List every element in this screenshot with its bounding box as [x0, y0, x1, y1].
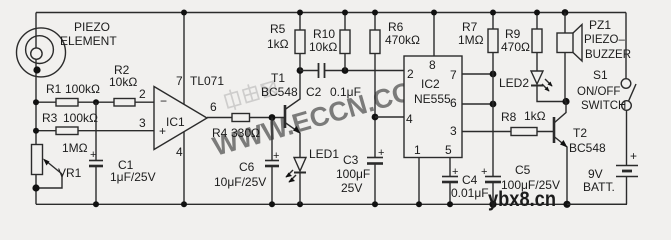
- transistor Q1 T1 BC548: [284, 105, 287, 128]
- svg-text:1kΩ: 1kΩ: [524, 109, 546, 123]
- svg-text:R8: R8: [501, 110, 517, 124]
- svg-text:R6: R6: [388, 20, 404, 34]
- svg-text:BUZZER: BUZZER: [585, 49, 631, 61]
- svg-text:+: +: [378, 147, 384, 159]
- potentiometer VR1: [32, 145, 43, 175]
- svg-text:R10: R10: [313, 27, 335, 41]
- svg-text:PZ1: PZ1: [589, 18, 611, 32]
- resistor R8: [511, 128, 537, 136]
- svg-text:0.01μF: 0.01μF: [451, 186, 489, 200]
- wire R2 to pin2: [135, 101, 154, 103]
- node T2 collector: [562, 98, 569, 105]
- LED2: [531, 71, 543, 84]
- svg-text:BC548: BC548: [261, 85, 298, 99]
- wire pin5 to C4: [449, 158, 451, 177]
- wire switch to battery: [626, 110, 628, 165]
- svg-text:5: 5: [445, 143, 452, 157]
- node pin7/R7: [490, 71, 497, 78]
- node LED1 ground: [297, 201, 303, 207]
- node VR1 return: [32, 184, 39, 191]
- svg-text:PIEZO‒: PIEZO‒: [584, 34, 626, 46]
- svg-text:6: 6: [450, 96, 457, 110]
- svg-text:BATT.: BATT.: [583, 180, 615, 194]
- svg-text:6: 6: [210, 100, 217, 114]
- node R6/pin4: [372, 114, 379, 121]
- svg-text:C3: C3: [343, 153, 359, 167]
- svg-text:LED2: LED2: [499, 76, 529, 90]
- svg-text:1MΩ: 1MΩ: [62, 141, 88, 155]
- svg-text:PIEZO: PIEZO: [74, 20, 110, 34]
- node T2 emitter ground: [563, 201, 570, 208]
- resistor R5: [295, 30, 305, 54]
- node R3 left: [33, 128, 39, 134]
- resistor R7: [488, 29, 498, 53]
- transistor Q2 T2 BC548: [553, 117, 556, 143]
- svg-text:10kΩ: 10kΩ: [309, 40, 337, 54]
- wire R4 to T1 base: [250, 117, 286, 119]
- node piezo bottom: [33, 66, 40, 73]
- svg-text:C5: C5: [515, 163, 531, 177]
- wire pin7: [462, 73, 493, 75]
- svg-text:1μF/25V: 1μF/25V: [110, 170, 156, 184]
- wire C2 to pin2: [325, 70, 405, 72]
- capacitor C1: [95, 102, 97, 160]
- capacitor C5: [485, 176, 501, 178]
- wire pin1 to ground: [418, 158, 420, 205]
- node R4/C6: [269, 114, 276, 121]
- capacitor C3: [367, 157, 383, 159]
- svg-text:1: 1: [414, 143, 421, 157]
- node pin6: [490, 101, 497, 108]
- resistor R1: [56, 99, 78, 107]
- wire R3 to pin3: [36, 130, 56, 132]
- svg-text:BC548: BC548: [569, 141, 606, 155]
- left rail wire: [35, 13, 37, 49]
- svg-text:ON/OFF: ON/OFF: [577, 86, 620, 98]
- svg-text:R5: R5: [270, 22, 286, 36]
- svg-text:T2: T2: [573, 126, 587, 140]
- resistor R6: [370, 30, 380, 54]
- piezo element PZ: [17, 28, 66, 77]
- wire R1: [36, 101, 56, 103]
- wiper arrow VR1: [46, 161, 63, 175]
- capacitor C6: [271, 118, 273, 161]
- node R1 left: [33, 99, 39, 105]
- svg-text:+: +: [452, 166, 458, 178]
- svg-text:2: 2: [407, 67, 414, 81]
- svg-text:470Ω: 470Ω: [501, 40, 530, 54]
- svg-text:R7: R7: [462, 20, 478, 34]
- resistor R3: [56, 127, 78, 135]
- buzzer PZ1: [562, 9, 569, 16]
- capacitor C2: [318, 63, 320, 78]
- op-amp U1 TL071: [154, 87, 207, 150]
- node C1 ground: [93, 201, 99, 207]
- svg-text:LED1: LED1: [309, 147, 339, 161]
- node C3 ground: [372, 201, 378, 207]
- wire pin8 to rail: [433, 13, 435, 57]
- svg-text:C2: C2: [306, 85, 322, 99]
- svg-text:R3: R3: [42, 111, 58, 125]
- resistor R2: [114, 99, 135, 107]
- svg-text:NE555: NE555: [414, 92, 451, 106]
- wire pin4: [375, 116, 404, 118]
- wire collector node to C2: [300, 70, 318, 72]
- battery 9V: [616, 165, 638, 167]
- bottom rail wire: [36, 203, 627, 205]
- node R10 bottom: [342, 67, 349, 74]
- svg-text:100μF: 100μF: [336, 167, 370, 181]
- svg-text:4: 4: [406, 112, 413, 126]
- svg-text:10kΩ: 10kΩ: [109, 75, 137, 89]
- resistor R4: [232, 114, 250, 122]
- svg-text:S1: S1: [593, 68, 608, 82]
- wire opamp output: [207, 117, 232, 119]
- svg-text:R4: R4: [212, 126, 228, 140]
- resistor R9: [532, 29, 542, 53]
- wire R8 to T2 base: [537, 131, 554, 133]
- node R1/R2/C1: [93, 99, 99, 105]
- node T1 collector / R5: [297, 67, 304, 74]
- switch S1: [621, 79, 631, 89]
- watermark ECCN: [199, 35, 438, 162]
- svg-text:25V: 25V: [341, 181, 362, 195]
- svg-text:C6: C6: [239, 160, 255, 174]
- svg-text:IC2: IC2: [421, 77, 440, 91]
- svg-text:4: 4: [176, 145, 183, 159]
- svg-text:0.1μF: 0.1μF: [330, 85, 361, 99]
- wire VR1 wiper return: [36, 174, 62, 188]
- svg-text:R9: R9: [505, 27, 521, 41]
- svg-text:R1: R1: [46, 82, 62, 96]
- svg-text:ybx8.cn: ybx8.cn: [488, 188, 556, 211]
- svg-text:+: +: [630, 149, 637, 163]
- wire pin6: [462, 103, 493, 105]
- svg-text:T1: T1: [271, 71, 285, 85]
- LED1: [294, 158, 306, 172]
- svg-text:+: +: [273, 150, 279, 162]
- node C6 ground: [269, 201, 275, 207]
- svg-text:1kΩ: 1kΩ: [267, 37, 289, 51]
- svg-text:2: 2: [139, 87, 146, 101]
- wire pin4 to ground: [183, 132, 185, 205]
- svg-text:C4: C4: [462, 173, 478, 187]
- LED1 arrows: [286, 170, 293, 177]
- wire pin3 to R8: [462, 131, 511, 133]
- svg-text:7: 7: [450, 68, 457, 82]
- right rail wire (to switch): [625, 13, 627, 79]
- svg-text:100kΩ: 100kΩ: [63, 111, 98, 125]
- wire pin7 to rail: [183, 13, 185, 105]
- svg-text:+: +: [90, 149, 96, 161]
- svg-text:10μF/25V: 10μF/25V: [214, 175, 266, 189]
- svg-text:3: 3: [450, 124, 457, 138]
- svg-text:100kΩ: 100kΩ: [65, 82, 100, 96]
- node C4 ground: [447, 201, 453, 207]
- svg-text:+: +: [159, 124, 166, 138]
- svg-text:SWITCH: SWITCH: [581, 100, 626, 112]
- svg-text:TL071: TL071: [190, 74, 224, 88]
- svg-text:3: 3: [139, 116, 146, 130]
- svg-text:−: −: [160, 94, 167, 108]
- svg-text:+: +: [481, 166, 487, 178]
- capacitor C4: [442, 176, 458, 178]
- node C5 ground: [489, 201, 496, 208]
- svg-text:9V: 9V: [588, 167, 603, 181]
- svg-text:ELEMENT: ELEMENT: [60, 34, 117, 48]
- svg-text:8: 8: [429, 58, 436, 72]
- svg-text:1MΩ: 1MΩ: [458, 33, 484, 47]
- IC2 NE555: [404, 56, 462, 158]
- svg-text:IC1: IC1: [166, 115, 185, 129]
- resistor R10: [340, 30, 350, 54]
- svg-text:7: 7: [176, 74, 183, 88]
- LED2 arrows: [542, 84, 549, 91]
- top rail wire: [36, 12, 626, 14]
- svg-text:330Ω: 330Ω: [231, 126, 260, 140]
- svg-text:470kΩ: 470kΩ: [385, 33, 420, 47]
